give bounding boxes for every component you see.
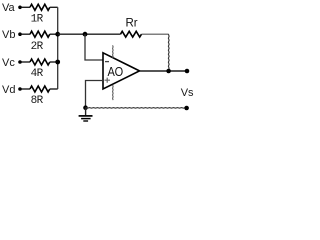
- svg-text:4R: 4R: [31, 68, 44, 80]
- terminal dot Vd: [18, 87, 22, 91]
- ground symbol: [79, 108, 93, 121]
- wire 4R to bus: [50, 61, 58, 63]
- svg-text:Vb: Vb: [2, 29, 15, 41]
- wire Vc terminal to resistor 4R: [22, 61, 31, 63]
- junction feedback-output: [166, 69, 171, 74]
- svg-text:8R: 8R: [31, 95, 44, 107]
- svg-text:Rr: Rr: [126, 18, 138, 30]
- wire 2R to bus: [50, 33, 58, 35]
- wire feedback vertical down to output: [167, 34, 170, 71]
- svg-text:Vc: Vc: [2, 57, 15, 69]
- resistor 8R zigzag: [30, 86, 50, 92]
- terminal dot Va: [18, 6, 22, 10]
- wire summing bus vertical: [57, 7, 59, 89]
- op-amp bottom power stub: [112, 85, 115, 100]
- wire non-inverting input: [86, 81, 104, 108]
- svg-text:Vd: Vd: [2, 84, 15, 96]
- wire Vd terminal to resistor 8R: [22, 88, 31, 90]
- resistor 1R zigzag: [30, 4, 50, 10]
- resistor Rr zigzag: [121, 31, 142, 37]
- op-amp top power stub: [112, 45, 115, 58]
- wire drop to inverting input: [85, 34, 103, 60]
- wire 8R to bus: [50, 88, 58, 90]
- svg-text:Va: Va: [2, 2, 16, 14]
- op-amp U1 triangle: [103, 53, 140, 89]
- terminal dot bottom right: [184, 106, 189, 111]
- svg-text:2R: 2R: [31, 41, 44, 53]
- wire Rr to feedback corner: [142, 33, 169, 35]
- junction bus-Vb: [55, 32, 60, 37]
- terminal dot output Vs: [185, 69, 190, 74]
- svg-text:1R: 1R: [31, 14, 44, 26]
- wire 1R to bus: [50, 6, 58, 8]
- wire Vb terminal to resistor 2R: [22, 33, 31, 35]
- svg-text:AO: AO: [108, 64, 123, 79]
- resistor 2R zigzag: [30, 31, 50, 37]
- svg-text:Vs: Vs: [181, 87, 194, 99]
- wire Va terminal to resistor 1R: [22, 6, 31, 8]
- op-amp plus symbol: [105, 78, 111, 83]
- wire summing node to feedback row: [58, 33, 121, 35]
- junction ground rail: [83, 105, 88, 110]
- wire op-amp output: [140, 70, 188, 72]
- junction bus-Vc: [55, 60, 60, 65]
- junction summing node drop: [83, 32, 88, 37]
- wire bottom rail: [86, 107, 187, 110]
- terminal dot Vb: [18, 32, 22, 36]
- op-amp minus symbol: [105, 61, 109, 63]
- resistor 4R zigzag: [30, 59, 50, 65]
- terminal dot Vc: [18, 60, 22, 64]
